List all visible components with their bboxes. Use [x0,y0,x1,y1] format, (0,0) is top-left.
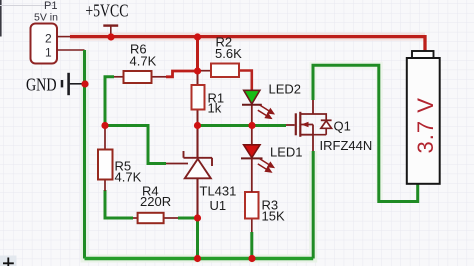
wire rail branch to R6/R2 junction [196,37,199,71]
wire R6 jog to junction [166,71,198,77]
wire node A to TL431 ref [105,126,166,164]
svg-text:15K: 15K [262,209,285,224]
LED2 arrows [258,105,274,118]
svg-text:Q1: Q1 [334,119,351,134]
ground GND [26,73,85,95]
svg-text:LED2: LED2 [269,82,302,97]
junction R6/R2/R1 [194,67,201,74]
connector P1 [31,0,85,64]
shunt regulator U1 TL431 [166,126,236,219]
junction R1/TL431 cathode [194,122,201,129]
junction bus/R3 [248,255,255,262]
screen edge artifact left [0,0,2,37]
MOSFET Q1 IRFZ44N [286,100,372,153]
wire R4 right to TL431 anode junction [178,217,198,220]
svg-text:P1: P1 [44,0,57,12]
svg-text:1: 1 [45,46,52,60]
wire TL431 anode junction to bus [196,218,199,259]
resistor R5 [98,126,142,192]
wire R6 left to node A column [105,77,114,126]
svg-text:4.7K: 4.7K [130,54,157,69]
svg-text:5V in: 5V in [34,11,58,23]
svg-text:LED1: LED1 [270,145,303,160]
battery 3.7V [407,51,440,184]
screen edge artifact top [0,5,55,7]
svg-text:TL431: TL431 [200,184,237,199]
junction rail/branch [194,33,201,40]
wire R2 right to LED2 anode [239,71,252,91]
junction +5VCC/rail [107,33,114,40]
P1 pin 1 [57,49,85,51]
junction bus/TL431 [194,255,201,262]
svg-text:U1: U1 [210,198,227,213]
resistor R1 [192,71,225,126]
LED1 arrows [258,159,274,172]
svg-text:GND: GND [26,75,57,95]
junction GND [81,80,88,87]
soft bleed glows under thick wires (decorative) [70,37,425,259]
wire drain loop to battery [313,65,418,201]
svg-text:+5VCC: +5VCC [85,1,128,21]
resistor R6 [114,42,166,84]
svg-text:IRFZ44N: IRFZ44N [320,138,373,153]
wire GND net from P1 pin 1 down [83,50,86,259]
junction LED2/LED1/gate [248,122,255,129]
wire R3 bottom to bus [250,232,253,259]
wire MOSFET source to bus [312,151,315,259]
junction node A (R6/R5/ref) [101,122,108,129]
wire feedback row to MOSFET gate [198,124,287,127]
svg-text:3.7 V: 3.7 V [413,97,438,153]
svg-text:1k: 1k [208,101,222,116]
resistor R3 [245,192,285,232]
origin cross mark [0,256,17,266]
svg-text:220R: 220R [140,194,171,209]
svg-text:5.6K: 5.6K [215,46,242,61]
svg-text:2: 2 [45,32,52,46]
supply symbol +5VCC [85,1,128,37]
wire R5 to R4 link [105,190,133,218]
wire ground bus bottom [85,257,314,261]
body diode [313,114,326,135]
junction R4/TL431 anode [194,214,201,221]
wire +5V rail [70,37,425,52]
LED1 (red) [241,126,303,193]
resistor R4 [133,184,178,224]
svg-text:4.7K: 4.7K [115,170,142,185]
LED2 (green) [242,82,301,126]
P1 pin 2 [57,36,70,38]
resistor R2 [198,35,243,78]
